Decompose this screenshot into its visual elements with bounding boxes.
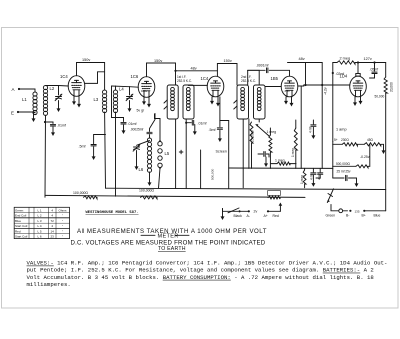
- capacitor .01mf IFT1: [191, 120, 193, 125]
- svg-text:.5mf: .5mf: [209, 128, 216, 132]
- coil resistance table: [14, 207, 69, 238]
- svg-text:48v: 48v: [191, 67, 197, 71]
- wire L5 to rail: [159, 168, 161, 188]
- wire V5 top cap to bus: [357, 63, 359, 74]
- coil L5 oscillator anode: [159, 140, 161, 142]
- capacitor 4 mf left: [312, 168, 314, 172]
- capacitor 4 mf right: [319, 168, 321, 172]
- svg-text:23: 23: [51, 235, 55, 239]
- ground .5mf cap: [219, 130, 221, 139]
- wire screen bypass branch: [94, 135, 106, 144]
- screen feed wire: [228, 121, 230, 189]
- svg-text:TO EARTH: TO EARTH: [158, 246, 186, 252]
- wire switch to pilot lamp: [331, 205, 339, 211]
- svg-text:48v: 48v: [299, 57, 305, 61]
- svg-text:milliamperes.: milliamperes.: [27, 281, 71, 288]
- svg-text:Screen: Screen: [216, 150, 227, 154]
- svg-text:1C4: 1C4: [60, 74, 68, 79]
- svg-text:230Ω: 230Ω: [341, 138, 349, 142]
- wire 48v feed to V4: [305, 63, 307, 86]
- wire lamp to B minus: [343, 210, 348, 212]
- resistor 1 meg to rail: [303, 170, 306, 184]
- svg-text:Start Coil: Start Coil: [15, 235, 28, 239]
- svg-text:Black: Black: [234, 214, 243, 218]
- IFT1 secondary coil in can: [183, 85, 194, 119]
- svg-text:Green: Green: [326, 214, 336, 218]
- svg-text:METER: METER: [158, 233, 179, 239]
- svg-text:”: ”: [62, 213, 63, 217]
- svg-text:L 6: L 6: [38, 235, 42, 239]
- svg-text:B-: B-: [346, 214, 349, 218]
- ground .5mf cap: [93, 147, 95, 158]
- resistor 230 ohm filament: [332, 142, 334, 145]
- IFT1 trimmer arrows: [164, 100, 167, 103]
- svg-text:1 meg: 1 meg: [267, 130, 277, 134]
- capacitor .05mf tone: [374, 63, 376, 72]
- resistor 500,000 bias: [332, 144, 334, 166]
- svg-text:-1.5v: -1.5v: [284, 89, 291, 93]
- svg-text:L6: L6: [139, 167, 144, 172]
- coil L3 RF plate coil: [103, 90, 107, 94]
- svg-text:1C6: 1C6: [131, 74, 139, 79]
- svg-text:1 amp: 1 amp: [336, 128, 347, 132]
- resistor 1 meg: [269, 135, 272, 152]
- bus 48v segment: [288, 62, 323, 64]
- IFT2 tap wire down: [248, 119, 250, 168]
- pilot lamp: [339, 209, 343, 213]
- ground V1 filament: [78, 96, 80, 105]
- svg-text:L 3: L 3: [38, 219, 42, 223]
- ground V2 cathode: [143, 97, 145, 102]
- bus AVC rail: [229, 167, 333, 169]
- switch blade A: [228, 208, 239, 213]
- wire cathode branch V2: [119, 117, 124, 119]
- svg-text:End Coil: End Coil: [15, 213, 27, 217]
- ground V3 filament: [217, 97, 219, 104]
- long vertical feed wire: [321, 63, 323, 169]
- svg-text:.05mf: .05mf: [370, 68, 379, 72]
- wire cathode branch V1: [45, 121, 53, 123]
- IFT1 primary return wire to rail: [175, 119, 177, 188]
- feed wire to bias network: [332, 63, 334, 142]
- svg-text:135: 135: [355, 209, 360, 213]
- ground V2 filament: [148, 97, 150, 105]
- on-off switch: [327, 189, 333, 203]
- svg-text:A+: A+: [264, 214, 268, 218]
- svg-text:2 meg: 2 meg: [340, 57, 351, 61]
- svg-text:.01mf: .01mf: [128, 122, 137, 126]
- tube V1 1C4 RF amplifier: [68, 76, 85, 97]
- IFT1 secondary return wire to rail: [185, 119, 187, 188]
- ground after 45 ohm: [383, 144, 385, 151]
- svg-text:L5: L5: [165, 151, 170, 156]
- svg-text:252.5 K.C.: 252.5 K.C.: [241, 79, 256, 83]
- resistor 45 ohm: [357, 143, 364, 145]
- ground below C1: [58, 101, 60, 110]
- ground V5 cathode: [354, 97, 356, 103]
- svg-text:25 mf 25v: 25 mf 25v: [337, 170, 351, 174]
- padder capacitor osc: [134, 146, 140, 148]
- wire IFT2 secondary top: [248, 70, 260, 85]
- svg-text:Start Coil: Start Coil: [15, 224, 28, 228]
- coil L6 oscillator grid: [147, 138, 151, 142]
- svg-text:1B5: 1B5: [271, 76, 279, 81]
- ground detector cap: [265, 157, 267, 164]
- ground A battery: [222, 209, 224, 218]
- svg-text:L3: L3: [94, 97, 99, 102]
- capacitor .01mf detector: [263, 152, 265, 157]
- wire V4 plate to V5 grid: [298, 85, 304, 86]
- svg-text:150v: 150v: [82, 58, 90, 62]
- terminal E and wire: [17, 111, 19, 113]
- contacts A battery: [238, 210, 240, 212]
- bus with 2 meg resistor: [333, 62, 337, 64]
- terminal A and wire to L1: [18, 88, 20, 90]
- svg-text:”: ”: [62, 235, 63, 239]
- ground below E: [33, 112, 35, 119]
- IFT2 trimmer arrows: [234, 100, 237, 103]
- coil L4 frame: [111, 86, 113, 118]
- svg-text:B+: B+: [362, 214, 366, 218]
- svg-text:-0.25v: -0.25v: [360, 155, 370, 159]
- variable capacitor C1 tuning: [56, 96, 62, 98]
- wire V3 plate to IFT2 primary: [217, 64, 237, 86]
- wire crossing tick: [179, 151, 183, 153]
- ground below .01mf cap: [52, 127, 54, 133]
- IFT2 primary return wire: [242, 119, 244, 188]
- svg-text:”: ”: [62, 224, 63, 228]
- svg-text:L 2: L 2: [38, 213, 42, 217]
- wire A minus: [222, 209, 224, 212]
- tube V4 1B5 detector driver: [281, 76, 298, 97]
- variable capacitor C2 tuning: [127, 96, 133, 98]
- IFT2 secondary coil in can: [254, 85, 266, 119]
- arrow A plus feed: [279, 205, 281, 212]
- audio coupling wire down: [300, 86, 302, 168]
- wire drop to rail: [200, 150, 202, 188]
- ground V5 filament: [360, 97, 362, 102]
- wire L2 bottom to bottom rail: [44, 115, 47, 197]
- svg-text:WESTINGHOUSE MODEL 587.: WESTINGHOUSE MODEL 587.: [86, 211, 139, 215]
- resistor 1 meg AVC: [294, 128, 297, 150]
- tube V2 1C6 pentagrid converter: [138, 77, 155, 98]
- IFT2 primary coil in can: [237, 85, 249, 119]
- wire V1 plate to L3: [77, 63, 105, 91]
- svg-text:150v: 150v: [224, 59, 232, 63]
- wire V3 screen branch: [220, 97, 229, 121]
- wire V4 plate loop: [269, 70, 289, 76]
- svg-text:50,000: 50,000: [375, 95, 385, 99]
- resistor 20,000 and right feed wire: [385, 63, 387, 78]
- ground V4 cathode: [285, 97, 287, 102]
- resistor 1 meg inline: [277, 162, 290, 165]
- wire IFT1 secondary to V3 grid: [188, 84, 207, 86]
- svg-text:.01mf: .01mf: [57, 124, 66, 128]
- svg-text:45Ω: 45Ω: [367, 138, 374, 142]
- IFT1 bypass branch: [186, 122, 191, 124]
- svg-text:.00025mf: .00025mf: [130, 128, 143, 132]
- svg-text:Blue: Blue: [374, 214, 381, 218]
- svg-text:Red: Red: [273, 214, 279, 218]
- svg-text:E: E: [11, 111, 14, 116]
- svg-text:Volt Accumulator. B 3 45 volt: Volt Accumulator. B 3 45 volt B blocks. …: [27, 274, 375, 281]
- svg-text:A: A: [12, 87, 15, 92]
- svg-text:1 meg: 1 meg: [291, 148, 295, 157]
- svg-text:.0001mf: .0001mf: [256, 64, 268, 68]
- svg-text:4 mf: 4 mf: [309, 127, 313, 133]
- svg-text:”: ”: [62, 219, 63, 223]
- capacitor .00025mf and osc grid wire: [149, 135, 151, 138]
- svg-text:1 meg: 1 meg: [275, 159, 285, 163]
- svg-text:2v: 2v: [254, 210, 258, 214]
- svg-text:100,000Ω: 100,000Ω: [139, 189, 154, 193]
- capacitor .01mf cathode bypass V2: [121, 122, 126, 124]
- svg-text:VALVES:- 1C4 R.F. Amp.; 1C6 Pe: VALVES:- 1C4 R.F. Amp.; 1C6 Pentagrid Co…: [27, 260, 388, 267]
- note meter: [141, 234, 155, 236]
- ground V1 cathode: [73, 96, 75, 102]
- svg-text:L 5: L 5: [38, 229, 42, 233]
- wire A plus: [267, 210, 269, 212]
- svg-text:.5mf: .5mf: [79, 145, 86, 149]
- tube V3 1C4 IF amplifier: [207, 76, 224, 97]
- wire V1 screen tap: [85, 72, 105, 84]
- IFT1 primary coil in can: [167, 85, 178, 119]
- svg-text:500,000: 500,000: [211, 169, 215, 180]
- ground V3 cathode: [211, 97, 213, 102]
- svg-text:A-: A-: [247, 214, 250, 218]
- wire L2 top to tuning cap: [46, 85, 59, 87]
- resistor 100,000 left inline: [84, 196, 98, 199]
- capacitor 25 mf bias bypass: [332, 166, 334, 178]
- capacitor .5mf screen bypass V1: [91, 144, 96, 146]
- svg-text:”: ”: [62, 229, 63, 233]
- ground IFT1 cap: [194, 125, 196, 133]
- svg-text:500,000Ω: 500,000Ω: [336, 162, 351, 166]
- resistor 100,000 mid inline: [141, 196, 158, 199]
- svg-text:Green: Green: [15, 208, 24, 212]
- ground below V2 bypass cap: [123, 125, 125, 131]
- svg-text:L4: L4: [119, 87, 124, 92]
- capacitor 4 mf upper filter: [312, 120, 314, 124]
- rail upper horizontal: [106, 188, 386, 189]
- svg-text:.01mf: .01mf: [198, 121, 207, 125]
- svg-text:5v gr: 5v gr: [137, 109, 145, 113]
- svg-text:20,000: 20,000: [390, 82, 394, 92]
- svg-text:put Pentode; I.F. 252.5 K.C.: put Pentode; I.F. 252.5 K.C. For Resista…: [27, 267, 374, 274]
- tube V5 1D4 output pentode: [350, 76, 367, 97]
- IFT2 secondary bottom stub: [258, 119, 260, 122]
- resistor 1 meg inline rail: [268, 191, 281, 196]
- ground padder: [136, 151, 138, 168]
- coil L2 antenna secondary: [43, 86, 47, 90]
- capacitor .0001mf IF filter: [266, 68, 268, 73]
- ground below C2: [129, 101, 131, 110]
- svg-text:L2: L2: [50, 86, 55, 91]
- wire B plus to right feed: [363, 210, 365, 212]
- capacitor .01mf cathode bypass V1: [50, 124, 55, 126]
- wire L4 bottom to rail: [115, 112, 117, 196]
- svg-text:252.5 K.C.: 252.5 K.C.: [177, 79, 192, 83]
- ground 25 mf cap: [356, 178, 358, 184]
- wire to V2 grid: [130, 86, 139, 89]
- svg-text:72: 72: [51, 219, 55, 223]
- svg-text:Ohms: Ohms: [58, 208, 67, 212]
- wire IFT2 secondary to V4 grid: [265, 86, 281, 88]
- svg-text:14: 14: [51, 229, 55, 233]
- svg-text:127v: 127v: [364, 57, 372, 61]
- wire 48v feed to V3: [176, 70, 218, 72]
- svg-text:Blue: Blue: [15, 219, 21, 223]
- potentiometer wiper arrow: [256, 125, 269, 137]
- wire to tuning cap C2: [129, 87, 131, 95]
- svg-text:5+: 5+: [334, 138, 338, 142]
- svg-text:.02mf: .02mf: [336, 72, 345, 76]
- svg-text:L1: L1: [22, 97, 27, 102]
- svg-text:-4.2v: -4.2v: [324, 87, 328, 95]
- coil L1 antenna primary: [34, 89, 36, 92]
- wire grid of V1: [59, 85, 69, 88]
- ground below L6: [149, 172, 151, 183]
- wire V2 plate to IFT1: [147, 63, 176, 85]
- svg-text:L 4: L 4: [38, 224, 42, 228]
- rail lower horizontal: [45, 195, 305, 197]
- svg-text:105v: 105v: [141, 89, 148, 93]
- capacitor .5mf screen bypass: [219, 121, 221, 127]
- svg-text:L 1: L 1: [38, 208, 42, 212]
- svg-text:100,000Ω: 100,000Ω: [73, 191, 88, 195]
- svg-text:Red: Red: [15, 229, 21, 233]
- ground V4 filament: [291, 97, 293, 104]
- svg-text:1C4: 1C4: [201, 76, 209, 81]
- coil L4 and grid wire: [113, 90, 117, 94]
- resistor 250,000 volume control: [250, 122, 253, 143]
